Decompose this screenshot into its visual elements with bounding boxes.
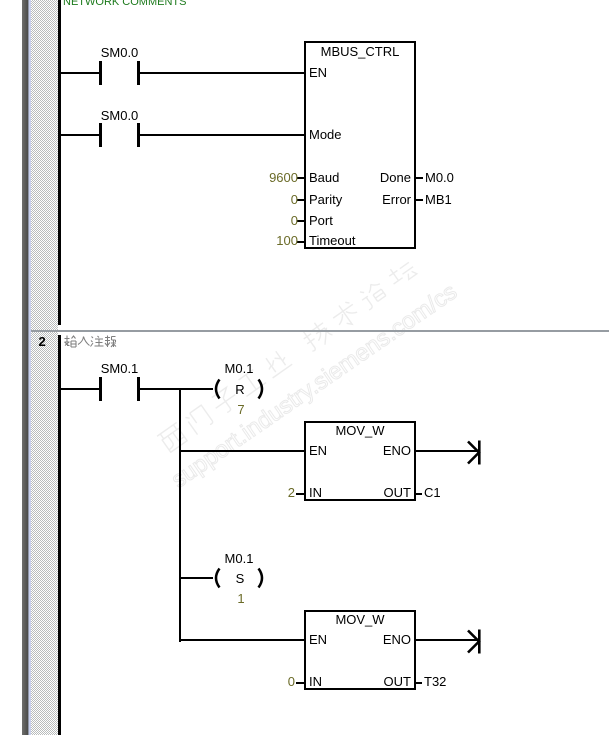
net2 wire contact->R coil (140, 388, 213, 390)
continuation arrow #2 (466, 628, 483, 656)
contact SM0.1 (99, 377, 102, 401)
watermark chinese 西门子工业 技术论坛 (155, 249, 433, 456)
net2 left power rail (58, 335, 61, 735)
pin stub + value 2 -> IN (296, 493, 304, 495)
net1 rung2 wire contact->Mode (140, 134, 304, 136)
pin stub Done -> M0.0 (416, 177, 423, 179)
network 2 number label (39, 335, 46, 348)
net2 main rung wire rail->contact (61, 388, 99, 390)
checkered gutter column (31, 0, 58, 735)
contact SM0.0 (rung2) (99, 123, 102, 147)
net1 left power rail (58, 0, 61, 325)
network separator line (31, 330, 609, 332)
pin stub + value 0 -> IN (296, 682, 304, 684)
pin stub + value 100 -> Timeout (297, 241, 304, 243)
wire branch->S coil (179, 577, 213, 579)
wire ENO -> arrow (416, 639, 478, 641)
branch wire to MOV_W #1 EN (179, 450, 305, 452)
coil R M0.1 (225, 362, 254, 375)
pin stub + value 9600 -> Baud (297, 177, 304, 179)
network 1 comment text (clipped) (63, 0, 186, 8)
function block MBUS_CTRL (304, 41, 416, 249)
contact SM0.0 (rung1) (99, 61, 102, 85)
pin stub Error -> MB1 (416, 199, 423, 201)
pin stub + value 0 -> Parity (297, 199, 304, 201)
wire ENO -> arrow (416, 450, 478, 452)
blue margin line (29, 0, 31, 735)
net1 rung1 wire contact->EN (140, 72, 304, 74)
coil S M0.1 (225, 552, 254, 565)
pin stub OUT -> T32 (416, 682, 422, 684)
watermark url support.industry.siemens.com/cs (166, 278, 462, 494)
function block MOV_W #1 (304, 421, 416, 501)
network 2 comment 输入注释 (64, 335, 116, 349)
pin stub + value 0 -> Port (297, 220, 304, 222)
continuation arrow #1 (466, 439, 483, 467)
branch vertical wire (179, 388, 181, 642)
left window border stripe (22, 0, 28, 735)
net1 rung1 wire rail->contact (61, 72, 99, 74)
pin stub OUT -> C1 (416, 493, 422, 495)
function block MOV_W #2 (304, 610, 416, 690)
net1 rung2 wire rail->contact (61, 134, 99, 136)
branch wire to MOV_W #2 EN (179, 639, 305, 641)
